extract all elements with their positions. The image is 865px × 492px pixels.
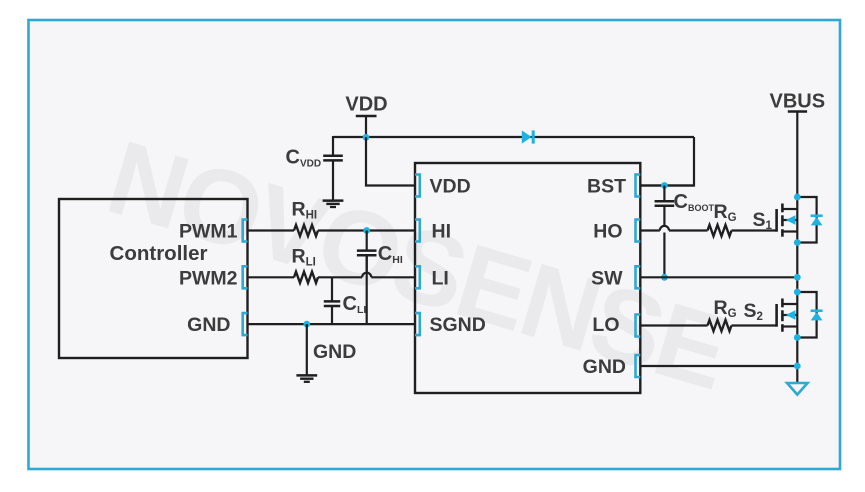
- wire HI node down: [366, 231, 368, 251]
- wire BST to corner: [640, 184, 694, 186]
- svg-text:LO: LO: [592, 314, 619, 336]
- pin VDD bracket (IC): [415, 175, 420, 197]
- junction HI node: [363, 227, 370, 234]
- wire C_BOOT to SW line: [663, 233, 665, 278]
- pin GND bracket (IC): [636, 355, 641, 377]
- wire controller GND to IC SGND: [248, 323, 416, 325]
- junction VDD rail: [363, 134, 370, 141]
- wire R_G to S2 gate: [732, 324, 777, 326]
- svg-text:SGND: SGND: [430, 314, 486, 336]
- junction SW node at C_BOOT: [661, 274, 668, 281]
- wire PWM2 to R_LI: [248, 276, 295, 278]
- wire VDD junction to IC VDD pin: [366, 137, 415, 186]
- wire hop to R_G: [669, 229, 708, 231]
- pin LI bracket: [415, 266, 420, 288]
- pin HO bracket: [636, 220, 641, 242]
- svg-text:HO: HO: [593, 221, 622, 243]
- svg-text:GND: GND: [187, 314, 230, 336]
- pin HI bracket: [415, 220, 420, 242]
- junction S1 source: [794, 239, 801, 246]
- VDD supply bar: [356, 115, 377, 118]
- capacitor C_BOOT: [655, 200, 675, 203]
- transistor S2 (low-side MOSFET): [775, 304, 778, 327]
- wire VBUS trunk: [796, 112, 798, 384]
- diode D1 (bootstrap): [522, 130, 532, 143]
- pin SGND bracket: [415, 313, 420, 335]
- junction GND node: [303, 321, 310, 328]
- svg-text:LI: LI: [432, 267, 449, 289]
- wire R_G to S1 gate: [732, 229, 777, 231]
- wire C_LI to SGND line: [331, 306, 333, 324]
- wire hop to IC LI pin: [371, 276, 415, 278]
- wire R_HI to IC HI pin: [318, 229, 415, 231]
- pin BST bracket: [636, 175, 641, 197]
- resistor R_HI: [294, 225, 318, 236]
- svg-text:GND: GND: [583, 356, 626, 378]
- resistor R_LI: [294, 272, 318, 283]
- wire rail to C_VDD: [332, 136, 334, 156]
- capacitor C_VDD: [323, 155, 343, 158]
- pin SW bracket: [636, 266, 641, 288]
- junction S2 source: [794, 334, 801, 341]
- body diode S2: [797, 292, 816, 338]
- wire GND node down: [306, 324, 308, 375]
- wire C_VDD to ground: [332, 160, 334, 200]
- svg-text:BST: BST: [587, 176, 626, 198]
- junction S1 drain: [794, 194, 801, 201]
- svg-text:VDD: VDD: [345, 94, 387, 116]
- resistor R_G (low side): [708, 320, 732, 331]
- pin PWM1 bracket: [243, 220, 248, 242]
- wire VDD bar to rail: [365, 116, 367, 137]
- junction S2 drain: [794, 289, 801, 296]
- wire LO to R_G: [640, 324, 707, 326]
- svg-text:VBUS: VBUS: [770, 91, 826, 113]
- body diode S1: [797, 197, 816, 243]
- transistor S1 (high-side MOSFET): [775, 209, 778, 232]
- wire IC GND to trunk: [640, 365, 797, 367]
- junction SW at trunk: [794, 274, 801, 281]
- pin GND bracket (controller): [243, 313, 248, 335]
- wire hop over C_HI: [362, 273, 371, 278]
- capacitor C_LI: [324, 300, 340, 303]
- svg-text:PWM1: PWM1: [179, 221, 238, 243]
- wire PWM1 to R_HI: [248, 229, 295, 231]
- svg-text:GND: GND: [313, 341, 356, 363]
- svg-text:HI: HI: [432, 221, 452, 243]
- resistor R_G (high side): [708, 225, 732, 236]
- wire C_HI to SGND line: [366, 255, 368, 324]
- wire C_BOOT to hop: [663, 206, 665, 227]
- ground (C_VDD): [323, 199, 344, 202]
- svg-text:Controller: Controller: [110, 242, 208, 265]
- wire SW to trunk: [640, 276, 797, 278]
- wire HO to hop: [640, 229, 660, 231]
- wire hop over C_BOOT: [660, 226, 669, 231]
- ground (controller GND): [296, 374, 317, 377]
- wire R_LI to hop: [318, 276, 362, 278]
- pin PWM2 bracket: [243, 266, 248, 288]
- svg-text:VDD: VDD: [430, 176, 471, 198]
- wire LI line down to C_LI: [331, 277, 333, 301]
- svg-text:PWM2: PWM2: [179, 267, 238, 289]
- wire VDD rail: [333, 136, 694, 138]
- capacitor C_HI: [357, 249, 377, 252]
- junction BST node: [661, 182, 668, 189]
- power ground triangle: [787, 383, 807, 395]
- pin LO bracket: [636, 315, 641, 337]
- junction GND at trunk: [794, 363, 801, 370]
- svg-text:SW: SW: [591, 267, 623, 289]
- wire BST node down: [663, 186, 665, 202]
- controller block: [59, 199, 248, 358]
- gate driver IC block: [415, 163, 640, 393]
- VBUS supply bar: [788, 110, 807, 113]
- wire rail corner down to BST row: [640, 137, 694, 186]
